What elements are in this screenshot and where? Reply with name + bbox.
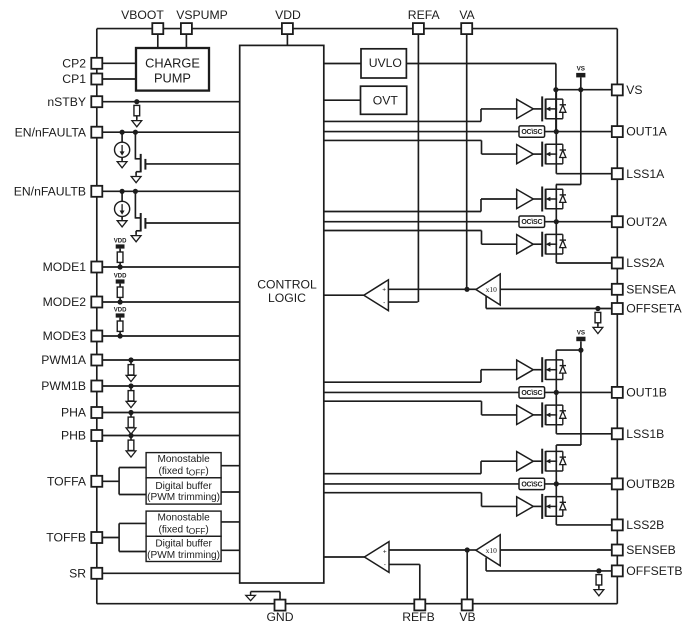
node OUT1B [554, 390, 559, 395]
wire 1AL gate [533, 153, 542, 155]
wire UVLO to VS corner [407, 63, 556, 65]
block UVLO [361, 49, 406, 78]
wire 2AH gate [533, 198, 542, 200]
ground EN/nFAULTB transistor [131, 233, 141, 242]
wire left bus [96, 29, 98, 604]
wire OFFSETA stub [485, 296, 487, 308]
block OC\SC 1A [519, 126, 545, 137]
block OC\SC 1B [519, 387, 545, 398]
pin MODE2 [91, 297, 102, 308]
wire PWM1B [97, 385, 240, 387]
node PWM1A pulldown tap [128, 357, 133, 362]
wire TOFFA from pin [97, 480, 119, 482]
node MODE3 pull-up tap [118, 333, 123, 338]
node OFFSETB tap [596, 568, 601, 573]
comparator B [364, 542, 389, 573]
wire nSTBY [97, 101, 240, 103]
wire driver 2BH lead [481, 460, 517, 462]
block OC\SC 2B [519, 478, 545, 489]
transistor 2B high-side [542, 449, 566, 474]
pin LSS2B [612, 519, 623, 530]
wire EN/nFAULTA current source to ground [121, 157, 123, 159]
wire TOFFB splitter vertical [118, 523, 120, 551]
resistor MODE2 pull-up [117, 287, 123, 297]
pin PWM1A [91, 355, 102, 366]
ground EN/nFAULTA transistor [131, 174, 141, 183]
wire ground bend down [279, 592, 281, 600]
pin PHA [91, 407, 102, 418]
transistor 2A low-side [542, 232, 566, 257]
svg-text:OUTB2B: OUTB2B [626, 477, 675, 491]
pin EN/nFAULTA [91, 127, 102, 138]
wire driver 1AL jog [481, 140, 483, 154]
wire driver 1AH lead [481, 108, 517, 110]
ground PWM1B [126, 401, 136, 407]
wire driver 1AH stub [324, 120, 481, 122]
node OFFSETA tap [595, 306, 600, 311]
wire EN/nFAULTA gate from control [145, 163, 239, 165]
wire bottom bus [97, 603, 618, 605]
pin MODE1 [91, 262, 102, 273]
wire MODE2 VDD tap to resistor [119, 284, 121, 288]
wire driver 1BH jog [480, 370, 482, 383]
wire PWM1A to resistor [130, 360, 132, 365]
block TOFFB monostable [146, 511, 221, 536]
transistor EN/nFAULTA pulldown gate bar [144, 159, 146, 170]
resistor OFFSETB [596, 575, 602, 585]
svg-text:Digital buffer: Digital buffer [155, 481, 212, 492]
pin CP1 square [91, 74, 102, 85]
svg-text:OUT2A: OUT2A [626, 215, 668, 229]
svg-text:PHB: PHB [61, 429, 86, 443]
wire EN/nFAULTB source jog [136, 230, 141, 232]
pin LSS1B [612, 428, 623, 439]
gate driver 1BH [517, 360, 534, 379]
wire EN/nFAULTB gate from control [145, 222, 239, 224]
pin VA [461, 23, 472, 34]
wire VS feed A2 jog [556, 184, 581, 186]
svg-text:SENSEB: SENSEB [626, 543, 675, 557]
resistor MODE1 pull-up [117, 252, 123, 262]
node MODE2 pull-up tap [118, 299, 123, 304]
resistor PWM1A pulldown [128, 365, 134, 375]
ground OFFSETA [593, 325, 603, 334]
wire driver 2AH lead [481, 198, 517, 200]
wire 1AH drain-source vertical [555, 90, 557, 132]
wire 1BL drain-source vertical [555, 392, 557, 433]
block charge pump [136, 48, 209, 91]
svg-text:VB: VB [459, 610, 475, 624]
transistor EN/nFAULTA pulldown channel [140, 154, 142, 173]
svg-text:REFB: REFB [402, 610, 435, 624]
wire OUT1A line [545, 131, 612, 133]
wire VA vertical [466, 34, 468, 289]
svg-text:PHA: PHA [61, 406, 87, 420]
wire SR [97, 572, 240, 574]
current source EN/nFAULTB [115, 201, 130, 216]
wire 2AL drain-source vertical [555, 222, 557, 263]
node VS rail A right [578, 87, 583, 92]
wire driver 2BL stub [324, 492, 482, 494]
wire MODE3 VDD tap to resistor [119, 318, 121, 322]
node VS rail A left [553, 87, 558, 92]
ground OFFSETB [594, 587, 604, 596]
wire 1BH gate [533, 369, 542, 371]
pin GND [275, 600, 286, 611]
wire EN/nFAULTB source down [135, 231, 137, 234]
wire comparator A output [324, 294, 364, 296]
resistor PHB pulldown [128, 440, 134, 450]
block TOFFA digital buffer [146, 478, 221, 504]
wire VS feed B2 vertical [580, 350, 582, 445]
wire PWM1B to resistor [130, 386, 132, 391]
node VB junction [465, 547, 470, 552]
wire driver 2AH stub [324, 211, 481, 213]
current source EN/nFAULTA [115, 142, 130, 157]
wire OC\SC 2A stub [324, 221, 519, 223]
resistor PWM1B pulldown [128, 391, 134, 401]
wire EN/nFAULTB current source to ground [121, 217, 123, 219]
transistor 1A high-side [542, 96, 566, 121]
wire OFFSETB line [486, 570, 612, 572]
svg-text:LSS1A: LSS1A [626, 167, 665, 181]
wire REFB vertical [419, 564, 421, 599]
supply VDD tap MODE1 [114, 238, 127, 248]
pin VSPUMP [181, 23, 192, 34]
wire driver 1BL jog [481, 401, 483, 415]
wire SENSEB line [500, 549, 612, 551]
wire OUT2A line [545, 221, 612, 223]
gate driver 2AH [517, 189, 534, 208]
svg-text:TOFFA: TOFFA [47, 474, 87, 488]
wire MODE1 [97, 266, 240, 268]
wire PWM1A [97, 359, 240, 361]
wire driver 1BL lead [482, 414, 517, 416]
svg-text:Digital buffer: Digital buffer [155, 539, 212, 550]
wire comparator B output [324, 556, 365, 558]
wire driver 1BH lead [481, 369, 517, 371]
resistor MODE3 pull-up [117, 321, 123, 331]
wire 1BH drain-source vertical [555, 350, 557, 392]
pin REFA [413, 23, 424, 34]
wire TOFFB digital buffer out [221, 549, 240, 551]
wire TOFFB monostable out [221, 521, 240, 523]
wire OC\SC 2B stub [324, 483, 519, 485]
gate driver 2AL [517, 235, 534, 254]
ground PHB [126, 451, 136, 457]
svg-text:PWM1A: PWM1A [41, 353, 87, 367]
wire driver 1AH jog [480, 109, 482, 122]
svg-text:MODE2: MODE2 [43, 295, 87, 309]
pin VS [612, 84, 623, 95]
wire 1AL drain-source vertical [555, 132, 557, 174]
block OC\SC 2A [519, 216, 545, 227]
pin LSS1A [612, 168, 623, 179]
wire PHB [97, 435, 240, 437]
transistor 2A high-side [542, 187, 566, 212]
wire VS feed B2 jog [556, 444, 581, 446]
wire TOFFA monostable out [221, 465, 240, 467]
wire OUT1B line [545, 391, 612, 393]
svg-text:(fixed tOFF): (fixed tOFF) [158, 466, 208, 478]
wire 2AH drain-source vertical [555, 185, 557, 222]
resistor PHA pulldown [128, 417, 134, 427]
wire VSPUMP to charge pump [185, 34, 187, 48]
wire driver 1BH stub [324, 381, 481, 383]
resistor nSTBY pulldown [134, 105, 140, 115]
node EN/nFAULTB current source tap [120, 189, 125, 194]
wire OFFSETA line [486, 308, 612, 310]
wire EN/nFAULTB drain jog [135, 217, 140, 219]
wire driver 1AL lead [482, 153, 517, 155]
pin OUTB2B [612, 478, 623, 489]
transistor 1B low-side [542, 402, 566, 427]
svg-text:LOGIC: LOGIC [268, 291, 306, 305]
wire 2AL gate [533, 243, 542, 245]
pin OUT1B [612, 387, 623, 398]
wire comparator B plus input [389, 549, 467, 551]
wire LSS2B line [556, 524, 612, 526]
comparator A [364, 280, 389, 311]
svg-text:VBOOT: VBOOT [121, 8, 164, 22]
supply VDD tap MODE3 [114, 307, 127, 317]
wire OUT2B line [545, 483, 612, 485]
svg-text:EN/nFAULTB: EN/nFAULTB [14, 184, 86, 198]
wire REFA vertical [417, 34, 419, 302]
pin VBOOT [152, 23, 163, 34]
wire OFFSETB resistor to ground [598, 585, 600, 588]
svg-text:CONTROL: CONTROL [257, 277, 317, 291]
wire PHA [97, 412, 240, 414]
svg-text:PUMP: PUMP [154, 70, 191, 85]
wire OC\SC 1A stub [324, 131, 519, 133]
block TOFFB digital buffer [146, 536, 221, 561]
pin VDD [282, 23, 293, 34]
svg-text:TOFFB: TOFFB [46, 531, 86, 545]
wire x10 A output [467, 288, 476, 290]
pin EN/nFAULTB [91, 186, 102, 197]
svg-text:OUT1B: OUT1B [626, 386, 667, 400]
pin OFFSETB [612, 565, 623, 576]
transistor 2B low-side [542, 494, 566, 519]
pin CP2 square [91, 58, 102, 69]
wire VB vertical [466, 550, 468, 599]
transistor EN/nFAULTB pulldown gate bar [144, 218, 146, 229]
supply VS tap B label+mark [576, 330, 585, 342]
wire driver 2AL stub [324, 230, 482, 232]
ground PHA [126, 428, 136, 434]
node VS rail B [578, 348, 583, 353]
wire LSS2A line [556, 262, 612, 264]
wire VS feed down A [555, 64, 557, 132]
svg-text:Monostable: Monostable [158, 513, 211, 524]
resistor OFFSETA [595, 312, 601, 322]
wire comparator A plus input [388, 288, 467, 290]
pin TOFFA [91, 476, 102, 487]
gate driver 2BH [517, 452, 534, 471]
wire EN/nFAULTA source jog [136, 171, 141, 173]
amplifier x10 A [476, 274, 500, 305]
svg-text:MODE1: MODE1 [43, 260, 87, 274]
gate driver 1AL [517, 145, 534, 164]
supply VDD tap MODE2 [114, 273, 127, 283]
wire EN/nFAULTA to current source [121, 132, 123, 142]
wire driver 1BL stub [324, 400, 482, 402]
pin SENSEA [612, 284, 623, 295]
pin OUT1A [612, 126, 623, 137]
wire LSS1B line [556, 433, 612, 435]
wire EN/nFAULTA drain jog [135, 158, 140, 160]
wire MODE1 VDD tap to resistor [119, 249, 121, 253]
wire driver 2AL jog [481, 231, 483, 245]
wire driver 2AL lead [482, 243, 517, 245]
pin SR [91, 568, 102, 579]
svg-text:OUT1A: OUT1A [626, 125, 668, 139]
node OUT2A [554, 219, 559, 224]
node MODE1 pull-up tap [118, 264, 123, 269]
svg-text:OVT: OVT [373, 93, 399, 107]
svg-text:EN/nFAULTA: EN/nFAULTA [15, 125, 87, 139]
svg-text:MODE3: MODE3 [43, 329, 87, 343]
transistor EN/nFAULTB pulldown channel [140, 213, 142, 232]
pin VB [462, 599, 473, 610]
wire OFFSETB stub [485, 558, 487, 571]
wire LSS1A line [556, 173, 612, 175]
svg-text:REFA: REFA [408, 8, 441, 22]
pin LSS2A [612, 258, 623, 269]
svg-text:PWM1B: PWM1B [41, 379, 86, 393]
wire TOFFA branch digital buffer [119, 494, 146, 496]
wire MODE1 resistor to line [119, 262, 121, 267]
svg-text:OFFSETA: OFFSETA [626, 302, 682, 316]
wire right bus [616, 29, 618, 604]
svg-text:SR: SR [69, 566, 86, 580]
svg-text:SENSEA: SENSEA [626, 282, 676, 296]
wire TOFFB from pin [97, 537, 119, 539]
svg-text:VS: VS [626, 83, 642, 97]
svg-text:GND: GND [266, 610, 293, 624]
wire MODE3 resistor to line [119, 331, 121, 336]
wire control to OVT [324, 99, 361, 101]
supply VS tap A label+mark [576, 66, 585, 78]
pin nSTBY [91, 96, 102, 107]
wire 2BL gate [533, 505, 542, 507]
wire driver 2BH jog [480, 461, 482, 474]
wire TOFFB branch monostable [119, 522, 146, 524]
wire MODE2 [97, 301, 240, 303]
node PHA pulldown tap [128, 410, 133, 415]
wire control to UVLO [324, 63, 361, 65]
ground EN/nFAULTA current source [117, 159, 127, 168]
svg-text:VA: VA [459, 8, 475, 22]
wire nSTBY resistor to ground [136, 116, 138, 119]
wire TOFFB branch digital buffer [119, 551, 146, 553]
wire x10 B output [467, 549, 476, 551]
wire CP1 [97, 78, 136, 80]
wire 2BL drain-source vertical [555, 484, 557, 525]
wire VS tap A [580, 78, 582, 90]
node EN/nFAULTA current source tap [120, 130, 125, 135]
svg-text:OFFSETB: OFFSETB [626, 564, 682, 578]
wire MODE3 [97, 335, 240, 337]
svg-text:(fixed tOFF): (fixed tOFF) [158, 524, 208, 536]
wire MODE2 resistor to line [119, 297, 121, 302]
wire 1AH gate [533, 108, 542, 110]
pin PHB [91, 430, 102, 441]
wire PHB to resistor [130, 436, 132, 441]
pin REFB [414, 599, 425, 610]
wire CP2 [97, 62, 136, 64]
gate driver 1BL [517, 405, 534, 424]
wire top bus [97, 28, 618, 30]
svg-text:VDD: VDD [275, 8, 301, 22]
svg-text:nSTBY: nSTBY [47, 95, 86, 109]
node OUT2B [554, 481, 559, 486]
pin OUT2A [612, 216, 623, 227]
ground signal arrow [246, 592, 256, 601]
ground PWM1A [126, 375, 136, 381]
wire 2BH drain-source vertical [555, 445, 557, 484]
ground nSTBY [132, 118, 142, 127]
wire OC\SC 1B stub [324, 391, 519, 393]
wire VS rail B [556, 349, 581, 351]
amplifier x10 B [476, 535, 500, 566]
wire driver 2BH stub [324, 473, 481, 475]
node nSTBY pulldown tap [134, 99, 139, 104]
pin MODE3 [91, 331, 102, 342]
svg-text:LSS1B: LSS1B [626, 427, 664, 441]
node PHB pulldown tap [128, 433, 133, 438]
pin SENSEB [612, 545, 623, 556]
block control logic [240, 45, 324, 583]
svg-text:CP2: CP2 [62, 56, 86, 70]
svg-text:LSS2B: LSS2B [626, 518, 664, 532]
block TOFFA monostable [146, 453, 221, 478]
wire TOFFA branch monostable [119, 467, 146, 469]
wire EN/nFAULTB to current source [121, 191, 123, 201]
svg-text:(PWM trimming): (PWM trimming) [147, 492, 220, 503]
wire VS tap B [580, 341, 582, 350]
svg-text:CHARGE: CHARGE [145, 56, 200, 71]
wire OFFSETA resistor to ground [597, 323, 599, 326]
wire VDD to control logic [286, 34, 288, 45]
wire 1BL gate [533, 414, 542, 416]
svg-text:UVLO: UVLO [369, 56, 402, 70]
transistor 1B high-side [542, 357, 566, 382]
wire EN/nFAULTA source down [135, 172, 137, 175]
ground EN/nFAULTB current source [117, 218, 127, 227]
wire comparator B minus input [389, 563, 420, 565]
wire driver 2BL jog [481, 493, 483, 507]
wire driver 2BL lead [482, 505, 517, 507]
wire SENSEA line [500, 288, 612, 290]
svg-text:VSPUMP: VSPUMP [176, 8, 227, 22]
node VA junction [464, 287, 469, 292]
svg-text:LSS2A: LSS2A [626, 256, 665, 270]
wire EN/nFAULTA transistor drain [134, 132, 136, 159]
gate driver 1AH [517, 99, 534, 118]
svg-text:(PWM trimming): (PWM trimming) [147, 550, 220, 561]
gate driver 2BL [517, 497, 534, 516]
svg-text:Monostable: Monostable [158, 454, 211, 465]
transistor 1A low-side [542, 142, 566, 167]
node OUT1A [554, 129, 559, 134]
wire driver 2AH jog [480, 199, 482, 212]
wire VS feed A2 vertical [580, 90, 582, 185]
block OVT [361, 86, 407, 114]
node EN/nFAULTB transistor tap [133, 189, 138, 194]
wire control logic ground bend [251, 591, 280, 593]
